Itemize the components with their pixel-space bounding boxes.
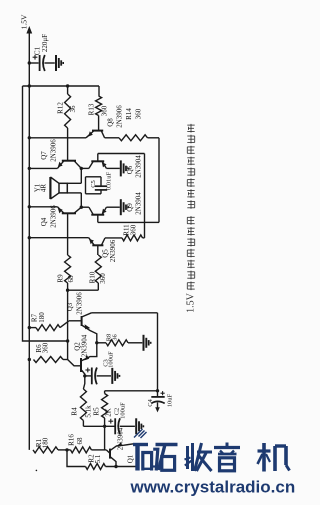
- svg-text:2N3906: 2N3906: [75, 292, 83, 315]
- svg-text:100uF: 100uF: [108, 351, 115, 368]
- svg-text:5.1k: 5.1k: [84, 405, 92, 418]
- svg-text:10uF: 10uF: [166, 393, 173, 407]
- svg-text:2N3906: 2N3906: [50, 205, 58, 228]
- svg-text:2N3904: 2N3904: [116, 427, 124, 450]
- svg-text:68: 68: [67, 275, 75, 283]
- svg-text:Q6: Q6: [126, 165, 134, 174]
- svg-text:360: 360: [99, 273, 107, 284]
- svg-text:2N3904: 2N3904: [80, 334, 88, 357]
- svg-text:2K: 2K: [104, 408, 112, 417]
- svg-text:360: 360: [129, 224, 137, 235]
- svg-text:2N3904: 2N3904: [135, 192, 143, 215]
- svg-text:1.5V: 1.5V: [185, 292, 196, 313]
- svg-text:Q4: Q4: [40, 217, 48, 226]
- svg-text:C5: C5: [90, 180, 97, 188]
- svg-text:R12: R12: [57, 102, 65, 114]
- svg-text:0.01uF: 0.01uF: [105, 172, 112, 191]
- svg-text:R5: R5: [92, 407, 100, 416]
- svg-text:1.5V: 1.5V: [19, 14, 28, 29]
- svg-text:4R: 4R: [39, 184, 47, 193]
- svg-text:R9: R9: [57, 274, 65, 283]
- svg-text:360: 360: [42, 342, 50, 353]
- svg-text:Q3: Q3: [66, 302, 74, 311]
- svg-text:2N3906: 2N3906: [50, 139, 58, 162]
- svg-text:Q9: Q9: [126, 203, 134, 212]
- svg-text:Q8: Q8: [107, 118, 115, 127]
- svg-text:2N3906: 2N3906: [115, 105, 123, 128]
- svg-text:2N3906: 2N3906: [109, 239, 117, 262]
- svg-text:100uF: 100uF: [119, 402, 126, 419]
- svg-text:Q1: Q1: [126, 454, 134, 463]
- svg-text:36: 36: [69, 105, 77, 113]
- svg-text:5.1: 5.1: [94, 454, 102, 463]
- svg-text:68: 68: [76, 437, 84, 445]
- svg-text:180: 180: [41, 437, 49, 448]
- svg-text:R13: R13: [88, 103, 96, 115]
- svg-text:180: 180: [38, 312, 46, 323]
- svg-text:R16: R16: [67, 434, 75, 446]
- svg-text:C4: C4: [147, 398, 154, 406]
- svg-text:360: 360: [100, 105, 108, 116]
- svg-text:36: 36: [111, 334, 118, 341]
- svg-text:220μF: 220μF: [41, 34, 49, 52]
- svg-text:Q7: Q7: [40, 151, 48, 160]
- svg-text:360: 360: [135, 108, 143, 119]
- svg-text:R4: R4: [70, 407, 78, 416]
- svg-text:2N3904: 2N3904: [135, 155, 143, 178]
- svg-text:www.crystalradio.cn: www.crystalradio.cn: [130, 478, 296, 497]
- svg-text:R14: R14: [125, 108, 133, 120]
- svg-text:R10: R10: [88, 271, 96, 283]
